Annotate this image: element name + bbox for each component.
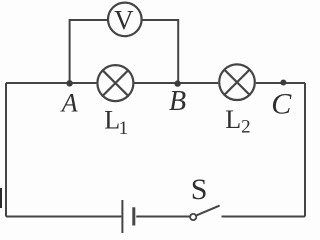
wire lamp L2 to node C to top-right corner <box>256 82 305 84</box>
node B <box>174 80 180 86</box>
node A <box>66 80 72 86</box>
voltmeter V <box>108 3 142 37</box>
battery positive plate (long) <box>121 200 123 233</box>
wire right side <box>304 83 306 217</box>
lamp L1 <box>97 65 133 101</box>
lamp L2 <box>219 64 255 100</box>
wire lamp L1 to node B <box>134 82 177 84</box>
svg-text:L2: L2 <box>225 105 250 138</box>
wire switch to bottom right corner <box>222 216 306 218</box>
svg-text:A: A <box>60 88 78 117</box>
battery negative plate (short) <box>132 207 135 225</box>
wire battery to switch <box>136 216 190 218</box>
node C <box>280 80 286 86</box>
scan artifact left edge <box>0 188 2 208</box>
svg-text:B: B <box>169 86 186 117</box>
wire top-left corner to node A <box>6 82 70 84</box>
svg-text:C: C <box>271 88 292 121</box>
switch S <box>190 206 220 220</box>
wire bottom left to battery <box>6 216 121 218</box>
wire voltmeter branch right <box>142 20 178 83</box>
wire node A to lamp L1 <box>70 82 97 84</box>
svg-text:L1: L1 <box>104 105 128 139</box>
wire left side <box>5 83 7 217</box>
wire voltmeter branch left <box>70 20 108 83</box>
wire node B to lamp L2 <box>178 82 219 84</box>
svg-text:V: V <box>114 5 134 35</box>
svg-text:S: S <box>191 173 208 206</box>
